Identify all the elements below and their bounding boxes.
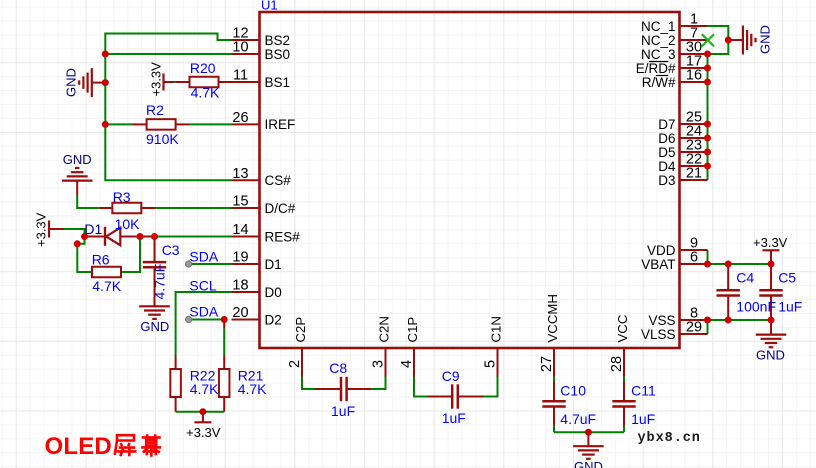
svg-text:+3.3V: +3.3V: [753, 235, 788, 250]
svg-text:VDD: VDD: [647, 243, 676, 258]
svg-text:20: 20: [232, 305, 248, 321]
svg-text:U1: U1: [261, 0, 278, 12]
svg-text:4.7K: 4.7K: [92, 278, 121, 294]
svg-text:2: 2: [287, 360, 303, 368]
svg-text:VBAT: VBAT: [641, 257, 675, 272]
svg-text:100nF: 100nF: [736, 299, 776, 315]
svg-text:C2N: C2N: [377, 316, 392, 342]
svg-text:19: 19: [232, 250, 248, 266]
svg-text:VCCMH: VCCMH: [545, 294, 560, 342]
svg-text:C4: C4: [736, 270, 754, 286]
svg-text:1uF: 1uF: [442, 410, 466, 426]
svg-text:C2P: C2P: [293, 317, 308, 343]
svg-text:E/RD#: E/RD#: [636, 61, 676, 76]
svg-text:GND: GND: [756, 348, 785, 363]
svg-text:4.7K: 4.7K: [191, 85, 220, 101]
svg-text:GND: GND: [574, 459, 603, 468]
svg-text:SDA: SDA: [189, 303, 218, 319]
svg-text:15: 15: [232, 194, 248, 210]
svg-text:D4: D4: [658, 159, 676, 174]
svg-text:D/C#: D/C#: [265, 201, 296, 216]
svg-text:910K: 910K: [146, 131, 179, 147]
svg-text:BS0: BS0: [265, 47, 291, 62]
svg-text:3: 3: [370, 360, 386, 368]
svg-text:27: 27: [539, 356, 555, 372]
svg-text:6: 6: [690, 250, 698, 266]
svg-text:10: 10: [232, 40, 248, 56]
svg-text:21: 21: [686, 166, 702, 182]
svg-text:BS2: BS2: [265, 33, 291, 48]
svg-text:CS#: CS#: [265, 173, 292, 188]
svg-text:IREF: IREF: [265, 117, 296, 132]
svg-text:D6: D6: [658, 131, 675, 146]
svg-text:1uF: 1uF: [631, 411, 655, 427]
svg-text:GND: GND: [63, 152, 92, 167]
svg-text:R3: R3: [113, 189, 131, 205]
svg-text:+3.3V: +3.3V: [186, 425, 221, 440]
svg-text:VSS: VSS: [648, 313, 675, 328]
svg-text:R6: R6: [92, 252, 110, 268]
svg-text:1uF: 1uF: [331, 403, 355, 419]
svg-text:4.7uF: 4.7uF: [152, 264, 168, 300]
svg-text:1uF: 1uF: [778, 299, 802, 315]
svg-text:+3.3V: +3.3V: [149, 62, 164, 97]
svg-text:4: 4: [399, 360, 415, 368]
svg-text:4.7uF: 4.7uF: [560, 411, 596, 427]
svg-text:+3.3V: +3.3V: [34, 212, 49, 247]
svg-text:GND: GND: [64, 68, 79, 97]
svg-text:NC_2: NC_2: [641, 33, 676, 48]
svg-text:D5: D5: [658, 145, 675, 160]
svg-text:26: 26: [232, 110, 248, 126]
svg-text:R2: R2: [146, 102, 164, 118]
svg-text:14: 14: [232, 222, 248, 238]
svg-text:C1N: C1N: [489, 316, 504, 342]
svg-text:BS1: BS1: [265, 75, 291, 90]
svg-text:16: 16: [686, 68, 702, 84]
svg-text:ybx8.cn: ybx8.cn: [638, 431, 701, 446]
svg-text:R/W#: R/W#: [642, 75, 676, 90]
svg-text:11: 11: [233, 68, 248, 84]
svg-text:C10: C10: [560, 383, 586, 399]
svg-text:D1: D1: [265, 257, 282, 272]
svg-text:10K: 10K: [115, 216, 141, 232]
svg-text:OLED: OLED: [45, 433, 112, 460]
svg-text:C8: C8: [329, 360, 347, 376]
svg-text:VLSS: VLSS: [641, 327, 676, 342]
svg-text:GND: GND: [140, 319, 169, 334]
svg-text:GND: GND: [757, 25, 772, 54]
svg-text:C11: C11: [631, 383, 656, 399]
svg-text:C9: C9: [442, 368, 460, 384]
svg-text:C5: C5: [778, 270, 796, 286]
svg-text:C3: C3: [162, 242, 180, 258]
svg-text:SCL: SCL: [189, 278, 216, 294]
svg-text:D7: D7: [658, 117, 675, 132]
svg-text:C1P: C1P: [405, 317, 420, 343]
svg-text:D1: D1: [84, 221, 102, 237]
svg-text:29: 29: [686, 320, 702, 336]
svg-text:NC_3: NC_3: [641, 47, 676, 62]
svg-text:D3: D3: [658, 173, 675, 188]
svg-text:4.7K: 4.7K: [238, 381, 267, 397]
svg-text:13: 13: [232, 166, 248, 182]
svg-text:5: 5: [482, 360, 498, 368]
svg-text:SDA: SDA: [189, 249, 218, 265]
svg-text:NC_1: NC_1: [641, 19, 676, 34]
svg-text:D2: D2: [265, 312, 282, 327]
svg-text:18: 18: [232, 278, 248, 294]
svg-text:D0: D0: [265, 285, 282, 300]
svg-text:4.7K: 4.7K: [190, 381, 219, 397]
svg-text:VCC: VCC: [615, 314, 630, 342]
svg-text:RES#: RES#: [265, 229, 301, 244]
svg-text:R20: R20: [190, 60, 216, 76]
svg-text:28: 28: [609, 356, 625, 372]
